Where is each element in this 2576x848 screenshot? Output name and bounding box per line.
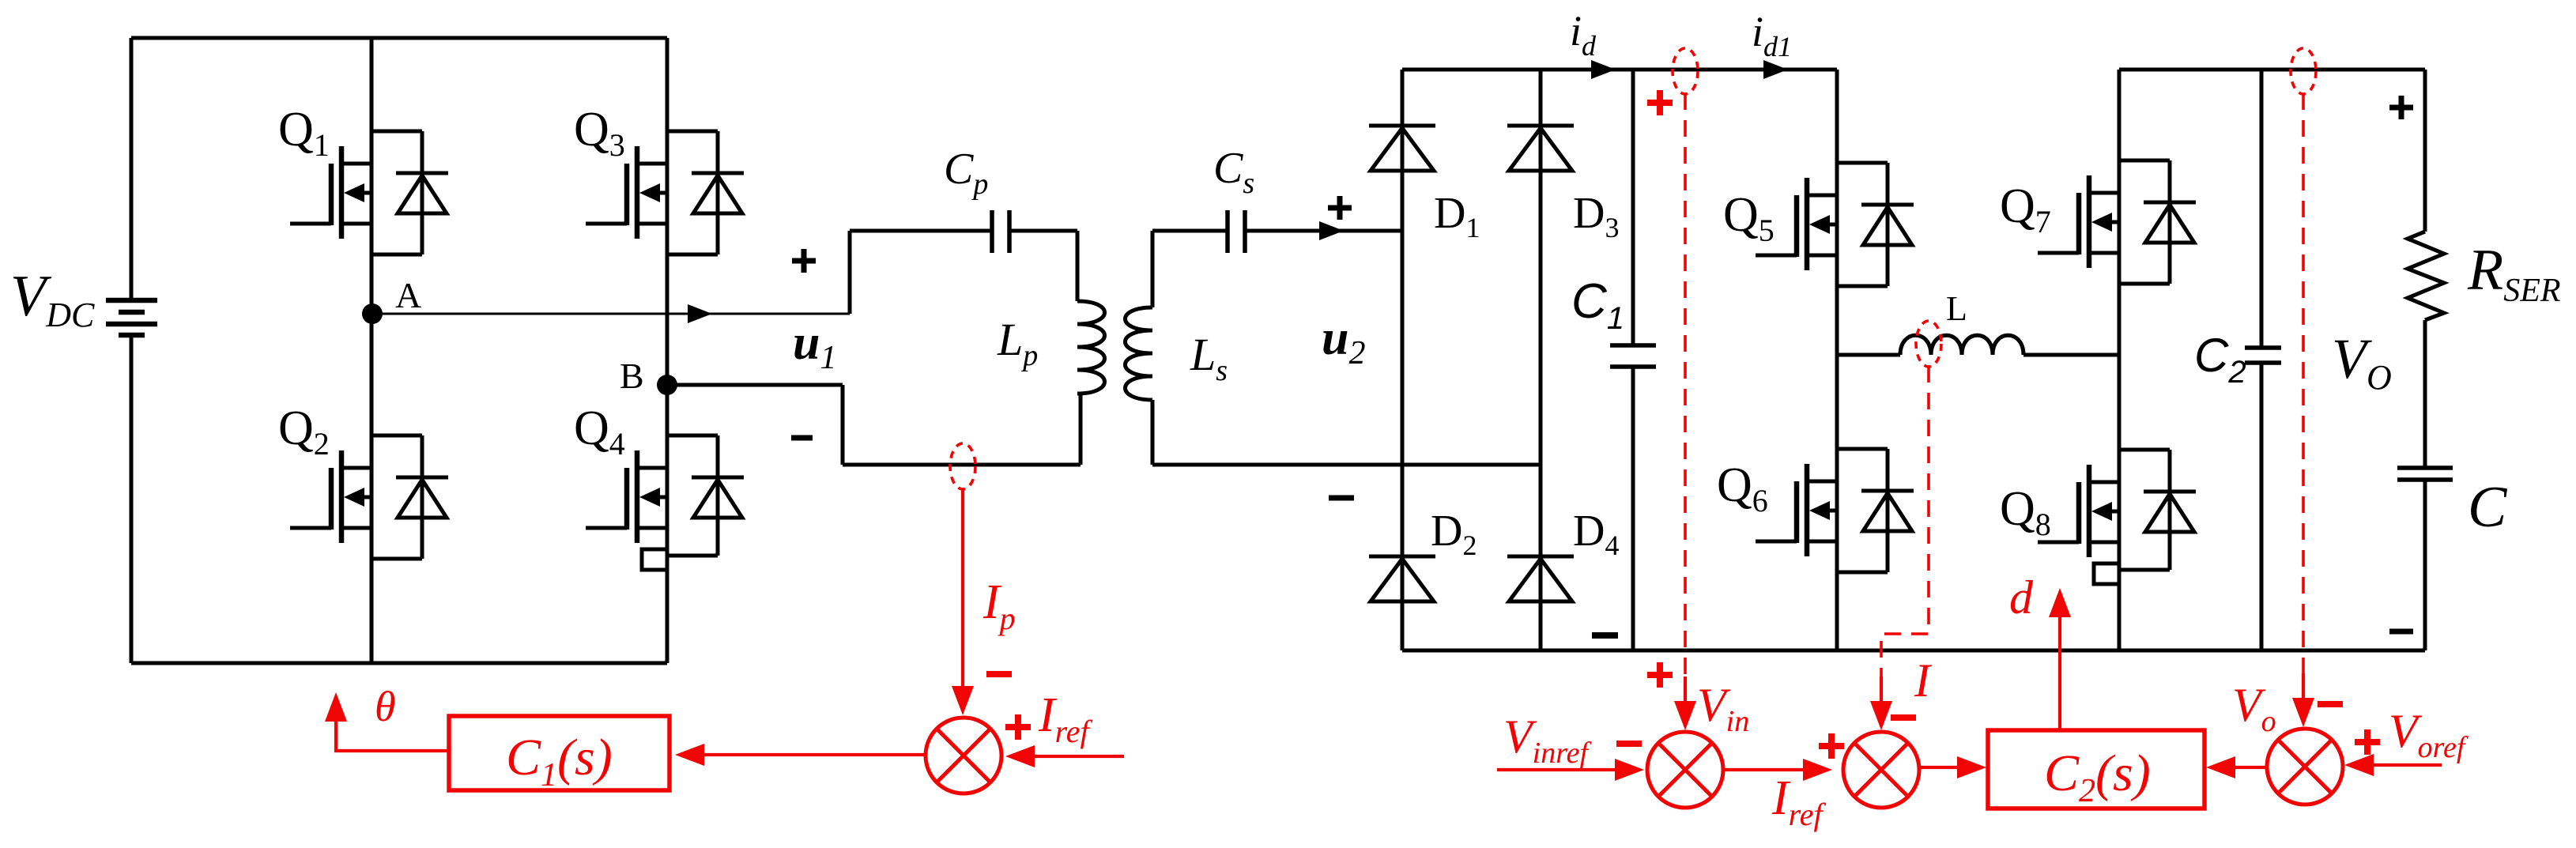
wire: Voref input line bbox=[2371, 763, 2442, 767]
wire: C2 leg upper bbox=[2260, 70, 2264, 348]
wire: Vo arrow line into summing C bbox=[2302, 673, 2305, 700]
arrow on u2 wire bbox=[1319, 221, 1344, 240]
label minus C1 bottom bbox=[1592, 632, 1618, 639]
svg-text:C: C bbox=[2468, 475, 2508, 540]
wire: I dashed sense line with jog bbox=[1881, 366, 1929, 678]
diode D1 bbox=[1369, 126, 1435, 171]
wire: Vinref input line bbox=[1497, 768, 1620, 771]
current sensor on output top rail (Vo sense) bbox=[2291, 48, 2316, 94]
wire: D3/D4 leg bbox=[1539, 70, 1543, 650]
wire: rectifier top rail with id bbox=[1402, 68, 1837, 72]
label plus I bbox=[1819, 733, 1844, 759]
svg-text:Ls: Ls bbox=[1190, 329, 1228, 387]
wire: tank top right segment bbox=[1009, 229, 1077, 233]
wire: secondary bottom vertical bbox=[1151, 400, 1155, 465]
controller block C2(s) bbox=[1988, 730, 2204, 808]
wire: primary top vertical bbox=[1076, 231, 1080, 301]
arrow: into C1(s) right edge bbox=[675, 744, 704, 766]
wire: output bridge top rail bbox=[2119, 68, 2425, 72]
wire: Ip sense line down bbox=[961, 488, 964, 689]
svg-text:Q4: Q4 bbox=[574, 401, 625, 462]
svg-text:D1: D1 bbox=[1434, 189, 1480, 243]
svg-text:u1: u1 bbox=[793, 316, 836, 376]
current sensor on rectifier output (Vin sense) bbox=[1673, 48, 1698, 94]
wire: left rail below battery bbox=[130, 335, 134, 663]
svg-text:Ip: Ip bbox=[983, 575, 1016, 636]
wire: secondary bottom to rectifier - input bbox=[1152, 463, 1541, 467]
svg-text:VDC: VDC bbox=[10, 264, 95, 334]
svg-text:RSER: RSER bbox=[2467, 238, 2561, 309]
controller block C1(s) bbox=[449, 716, 669, 790]
svg-text:Q1: Q1 bbox=[278, 103, 330, 163]
wire: left bridge top rail bbox=[131, 36, 667, 40]
capacitor C load bbox=[2397, 468, 2453, 480]
arrow: d up into bridge bbox=[2049, 588, 2071, 617]
svg-text:id: id bbox=[1570, 7, 1597, 62]
svg-text:D3: D3 bbox=[1573, 189, 1619, 243]
svg-text:B: B bbox=[620, 356, 644, 396]
wire: C2(s) input from summing C bbox=[2235, 766, 2268, 769]
label minus Vo bbox=[2318, 701, 2343, 707]
wire: I arrow line into summing circle B bbox=[1880, 677, 1883, 703]
svg-text:Q8: Q8 bbox=[2000, 482, 2051, 542]
label plus u2 bbox=[1328, 196, 1352, 220]
wire: theta output line from C1(s) bbox=[336, 721, 449, 751]
svg-text:Q3: Q3 bbox=[574, 103, 625, 163]
svg-text:Lp: Lp bbox=[997, 314, 1038, 372]
wire: inductor L to output bridge midpoint bbox=[2023, 353, 2119, 357]
svg-text:C2: C2 bbox=[2194, 329, 2246, 390]
svg-text:Q6: Q6 bbox=[1717, 458, 1768, 518]
arrow on node A wire bbox=[688, 304, 712, 323]
capacitor Cp bbox=[992, 210, 1009, 253]
wire: Iref input line bbox=[1028, 755, 1124, 758]
svg-text:C1(s): C1(s) bbox=[506, 729, 613, 793]
arrow: theta up bbox=[325, 692, 347, 722]
wire: Vin arrow line into summing circle A bbox=[1684, 677, 1687, 703]
wire: Q1/Q2 leg bbox=[370, 38, 374, 663]
arrow: Vo down into summing C bbox=[2292, 698, 2314, 727]
svg-text:D4: D4 bbox=[1573, 507, 1619, 561]
arrow: Vin down into summing A bbox=[1674, 701, 1696, 730]
svg-text:I: I bbox=[1914, 654, 1933, 707]
label plus u1 bbox=[792, 249, 816, 273]
svg-text:Vo: Vo bbox=[2232, 679, 2276, 738]
wire: C1 leg upper bbox=[1631, 70, 1635, 345]
svg-text:Q5: Q5 bbox=[1723, 188, 1775, 248]
svg-text:id1: id1 bbox=[1752, 8, 1792, 62]
wire: tank lower-left vertical (from B wire) bbox=[841, 385, 845, 465]
transistor Q3 bbox=[586, 131, 744, 254]
current sensor on inductor L (I sense) bbox=[1916, 321, 1941, 367]
diode D3 bbox=[1507, 126, 1574, 171]
wire: node A to tank bbox=[372, 313, 850, 315]
wire: Q5/Q6 leg bbox=[1835, 70, 1839, 650]
svg-text:Vinref: Vinref bbox=[1503, 710, 1591, 770]
transistor Q6 bbox=[1756, 449, 1914, 572]
wire: main bottom rail bbox=[1402, 649, 2425, 653]
transistor Q2 bbox=[290, 435, 448, 559]
wire: load leg upper bbox=[2423, 70, 2427, 232]
svg-text:d: d bbox=[2009, 571, 2034, 624]
wire: C1(s) input line from Ip summing circle bbox=[702, 753, 926, 756]
arrow: Vinref into summing A bbox=[1615, 759, 1644, 781]
arrow id1 on top rail bbox=[1763, 60, 1788, 79]
summing junction C (Vo/Voref) bbox=[2267, 729, 2343, 805]
wire: left bridge bottom rail bbox=[131, 661, 667, 665]
wire: load leg middle bbox=[2423, 320, 2427, 468]
node A junction dot bbox=[362, 303, 383, 324]
wire: node B to tank bbox=[667, 383, 843, 387]
inductor Lp primary winding bbox=[1077, 301, 1105, 394]
wire: C1 leg lower bbox=[1631, 367, 1635, 650]
label minus Ip bbox=[986, 671, 1012, 677]
label minus output bbox=[2389, 629, 2413, 635]
svg-text:Cp: Cp bbox=[944, 145, 988, 201]
svg-text:D2: D2 bbox=[1431, 507, 1477, 561]
label plus Vin top bbox=[1647, 90, 1673, 115]
arrow: Voref into summing C bbox=[2344, 754, 2374, 776]
label plus Iref left bbox=[1005, 714, 1031, 740]
svg-text:Q7: Q7 bbox=[2000, 179, 2051, 239]
transistor Q7 bbox=[2038, 160, 2196, 284]
svg-text:Q2: Q2 bbox=[278, 401, 330, 462]
wire: Q7/Q8 leg bbox=[2118, 70, 2122, 650]
capacitor C1 bbox=[1610, 345, 1656, 367]
label plus Voref bbox=[2355, 729, 2380, 755]
label minus Vinref bbox=[1616, 741, 1642, 747]
transistor Q1 bbox=[290, 131, 448, 254]
capacitor Cs bbox=[1228, 210, 1245, 253]
arrow id on top rail bbox=[1591, 60, 1616, 79]
transistor Q5 bbox=[1756, 163, 1914, 286]
diode D2 bbox=[1369, 556, 1435, 601]
svg-text:Iref: Iref bbox=[1038, 688, 1092, 749]
svg-text:L: L bbox=[1946, 289, 1967, 328]
battery VDC bbox=[106, 300, 157, 335]
wire: secondary loop top bbox=[1152, 229, 1228, 233]
inductor L bbox=[1900, 335, 2023, 355]
summing junction (Ip/Iref) bbox=[926, 718, 1001, 793]
svg-text:θ: θ bbox=[375, 683, 396, 730]
resistor RSER bbox=[2408, 232, 2444, 320]
svg-text:C1: C1 bbox=[1571, 274, 1624, 336]
svg-text:Vin: Vin bbox=[1697, 679, 1749, 738]
svg-text:A: A bbox=[395, 275, 421, 315]
wire: tank bottom bbox=[843, 463, 1081, 467]
wire: secondary top vertical bbox=[1151, 231, 1155, 307]
diode D4 bbox=[1507, 556, 1574, 601]
svg-text:Iref: Iref bbox=[1771, 771, 1826, 832]
arrow: into C2(s) left edge bbox=[1957, 756, 1986, 778]
summing junction A (Vinref/Vin) bbox=[1647, 732, 1723, 808]
svg-text:Voref: Voref bbox=[2389, 705, 2469, 764]
arrow: Ip into summing circle bbox=[952, 686, 974, 715]
wire: tank top left segment bbox=[850, 229, 992, 233]
wire: summing B to C2(s) bbox=[1921, 766, 1959, 769]
label plus Vin bbox=[1647, 662, 1673, 688]
transistor Q8 bbox=[2038, 450, 2196, 584]
summing junction B (Iref/I) bbox=[1843, 732, 1919, 808]
arrow: Iref into Ip summing circle bbox=[1005, 745, 1035, 767]
label plus output bbox=[2389, 96, 2413, 119]
label minus u2 bbox=[1329, 496, 1354, 501]
wire: Vo dashed sense line bbox=[2302, 93, 2305, 675]
svg-text:C2(s): C2(s) bbox=[2044, 744, 2151, 809]
arrow: into summing B from A bbox=[1803, 759, 1832, 781]
transistor Q4 bbox=[586, 435, 744, 570]
wire: summing A to summing B bbox=[1724, 768, 1808, 771]
svg-text:Cs: Cs bbox=[1213, 144, 1254, 200]
wire: tank left vertical (from A wire up) bbox=[848, 231, 852, 314]
label minus I bbox=[1891, 714, 1916, 721]
svg-text:VO: VO bbox=[2332, 327, 2392, 397]
capacitor C2 bbox=[2245, 348, 2281, 363]
arrow: into C2(s) right edge bbox=[2206, 756, 2235, 778]
wire: Vin dashed sense line bbox=[1684, 93, 1687, 678]
current sensor on tank bottom (Ip) bbox=[950, 443, 975, 489]
svg-text:u2: u2 bbox=[1322, 311, 1365, 371]
wire: D1/D2 leg bbox=[1401, 70, 1405, 650]
wire: C2 leg lower bbox=[2260, 363, 2264, 650]
inductor Ls secondary winding bbox=[1126, 307, 1153, 400]
label minus u1 bbox=[791, 435, 813, 441]
wire: load leg lower bbox=[2423, 480, 2427, 650]
node B junction dot bbox=[657, 375, 677, 395]
wire: left rail above battery bbox=[130, 38, 134, 300]
wire: d output line from C2(s) bbox=[2058, 616, 2061, 730]
wire: Cs to rectifier + input bbox=[1245, 229, 1402, 233]
wire: buck midpoint to inductor L bbox=[1837, 353, 1900, 357]
wire: primary bottom vertical bbox=[1079, 394, 1083, 465]
wire: Q3/Q4 leg bbox=[666, 38, 669, 663]
arrow: I down into summing B bbox=[1870, 701, 1892, 730]
